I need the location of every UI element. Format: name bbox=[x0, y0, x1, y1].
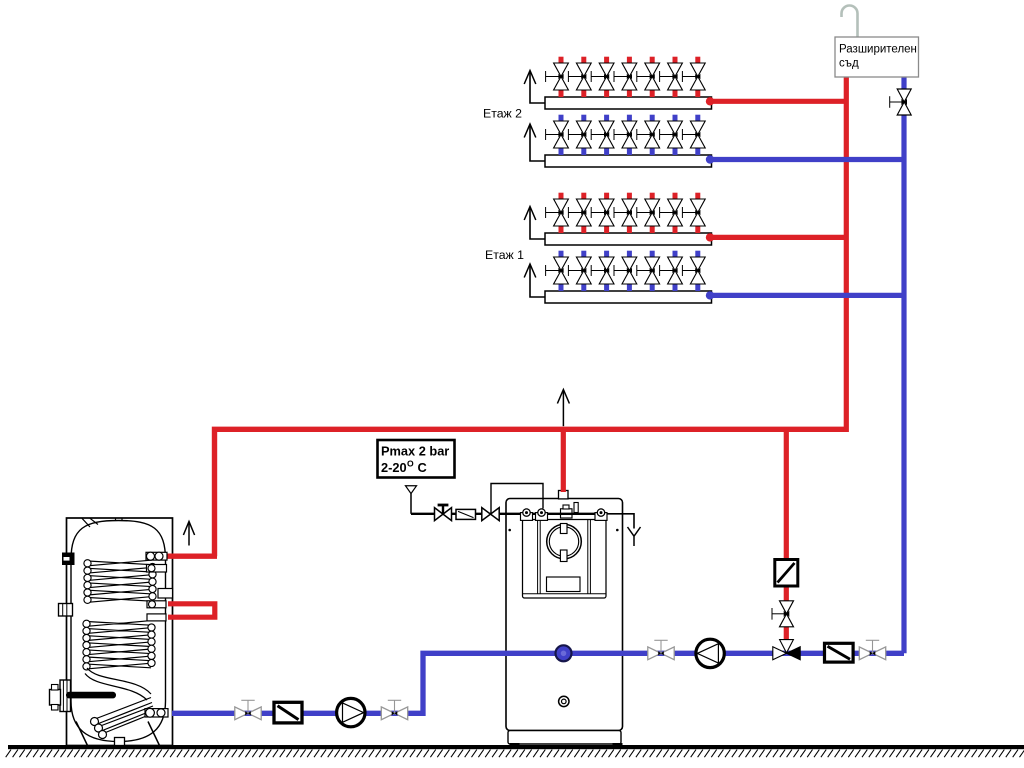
loop valve M4-6 bbox=[660, 251, 683, 291]
loop valve M3-5 bbox=[637, 193, 660, 233]
manifold M2 (floor2 return) bbox=[545, 155, 712, 167]
loop valve M2-1 bbox=[546, 115, 569, 155]
vent Y symbol bbox=[628, 527, 641, 546]
tank upper red port bbox=[146, 552, 167, 560]
boiler top port 1 bbox=[521, 509, 533, 521]
loop valve M2-2 bbox=[568, 115, 591, 155]
boiler drain port bbox=[559, 696, 569, 706]
ground line with hatching bbox=[6, 745, 1024, 757]
filter on red drop bbox=[775, 560, 798, 587]
flow arrow manifold M2 bbox=[524, 124, 545, 161]
loop valve M3-2 bbox=[568, 193, 591, 233]
valve on blue riser bbox=[890, 89, 912, 115]
red branch to manifold M3 bbox=[704, 233, 846, 242]
filter F1 bbox=[274, 702, 302, 723]
tank left black port bbox=[62, 553, 75, 566]
bypass loop pipe bbox=[491, 484, 543, 514]
valve V2 bbox=[381, 700, 407, 719]
boiler top port 3 bbox=[595, 509, 607, 521]
flow arrow above tank bbox=[183, 522, 194, 546]
Pmax label box bbox=[378, 440, 455, 478]
boiler return port bbox=[556, 645, 572, 661]
flow arrow above boiler bbox=[557, 390, 569, 427]
boiler door circle bbox=[547, 524, 582, 562]
pipe end caps at manifolds bbox=[706, 97, 714, 299]
pump P2 bbox=[696, 639, 724, 667]
hot water tank outer frame bbox=[67, 518, 173, 746]
blue branch manifold M4 bbox=[704, 291, 904, 300]
boiler top port 2 bbox=[536, 509, 548, 521]
manifold M1 (floor2 supply) bbox=[545, 97, 712, 109]
tank right mid junction bbox=[147, 565, 173, 599]
valve V3 bbox=[648, 640, 674, 659]
loop valve M4-5 bbox=[637, 251, 660, 291]
svg-text:O: O bbox=[407, 459, 414, 469]
tank blue outlet port bbox=[145, 708, 168, 717]
filter F2 bbox=[825, 643, 854, 662]
tank legs bbox=[76, 722, 160, 746]
blue riser bbox=[901, 76, 906, 653]
strainer S1 bbox=[456, 509, 476, 519]
loop valve M4-7 bbox=[682, 251, 705, 291]
red riser to expansion vessel bbox=[844, 77, 849, 432]
red supply main pipe bbox=[167, 429, 847, 556]
red branch to manifold M1 bbox=[704, 97, 846, 106]
loop valve M4-1 bbox=[546, 251, 569, 291]
red drop to mixing valve bbox=[784, 429, 789, 641]
loop valve M4-2 bbox=[568, 251, 591, 291]
flow arrow manifold M4 bbox=[524, 264, 545, 297]
safety valve V5 bbox=[435, 505, 452, 521]
expansion vessel box bbox=[835, 37, 919, 77]
loop valve M2-6 bbox=[660, 115, 683, 155]
svg-text:Разширителен: Разширителен bbox=[839, 44, 917, 56]
label floor 1 bbox=[485, 248, 524, 262]
loop valve M2-4 bbox=[614, 115, 637, 155]
three-way mixing valve bbox=[773, 640, 800, 660]
flow arrow manifold M3 bbox=[524, 207, 545, 240]
safety pipe line bbox=[411, 513, 634, 529]
loop valve M4-4 bbox=[614, 251, 637, 291]
drain funnel bbox=[406, 486, 417, 514]
loop valve M3-6 bbox=[660, 193, 683, 233]
tank coil S-connector tube bbox=[85, 668, 151, 700]
loop valve M2-3 bbox=[591, 115, 614, 155]
loop valve M3-3 bbox=[591, 193, 614, 233]
tank bottom exchanger tubes bbox=[91, 698, 154, 739]
tank vessel body bbox=[71, 518, 166, 741]
pump P1 bbox=[337, 698, 365, 726]
valve on red drop bbox=[772, 601, 794, 627]
blue return from tank bbox=[172, 653, 904, 713]
valve V1 bbox=[235, 700, 261, 719]
svg-text:Етаж 2: Етаж 2 bbox=[483, 107, 522, 121]
loop valve M2-5 bbox=[637, 115, 660, 155]
loop valve M1-6 bbox=[660, 57, 683, 97]
loop valve M1-1 bbox=[546, 57, 569, 97]
manifold M4 (floor1 return) bbox=[545, 291, 712, 303]
loop valve M1-5 bbox=[637, 57, 660, 97]
svg-text:2-20: 2-20 bbox=[381, 460, 407, 475]
tank upper heat-exchanger coil bbox=[84, 560, 156, 604]
loop valve M1-7 bbox=[682, 57, 705, 97]
tank mid ports bbox=[147, 601, 166, 621]
valve V6 bbox=[482, 508, 499, 521]
svg-text:съд: съд bbox=[839, 58, 859, 70]
tank left lower port bbox=[59, 604, 73, 617]
tank lower heat-exchanger coil bbox=[83, 620, 155, 670]
manifold M3 (floor1 supply) bbox=[545, 233, 712, 245]
svg-text:Pmax 2 bar: Pmax 2 bar bbox=[381, 444, 449, 459]
boiler front panel bbox=[508, 520, 618, 599]
flow arrow manifold M1 bbox=[524, 71, 545, 104]
tank electric heater element bbox=[50, 680, 117, 712]
red tank bracket pipe bbox=[168, 604, 215, 617]
boiler body bbox=[506, 491, 623, 748]
blue branch manifold M2 bbox=[704, 155, 904, 164]
loop valve M3-4 bbox=[614, 193, 637, 233]
loop valve M4-3 bbox=[591, 251, 614, 291]
loop valve M1-3 bbox=[591, 57, 614, 97]
loop valve M2-7 bbox=[682, 115, 705, 155]
loop valve M1-4 bbox=[614, 57, 637, 97]
label floor 2 bbox=[483, 107, 522, 121]
loop valve M3-7 bbox=[682, 193, 705, 233]
loop valve M1-2 bbox=[568, 57, 591, 97]
expansion vessel hook bbox=[842, 6, 858, 38]
svg-text:C: C bbox=[418, 460, 427, 475]
boiler top fitting bbox=[561, 503, 579, 519]
red drop to boiler bbox=[561, 429, 566, 492]
loop valve M3-1 bbox=[546, 193, 569, 233]
svg-text:Етаж 1: Етаж 1 bbox=[485, 248, 524, 262]
valve V4 bbox=[859, 640, 885, 659]
